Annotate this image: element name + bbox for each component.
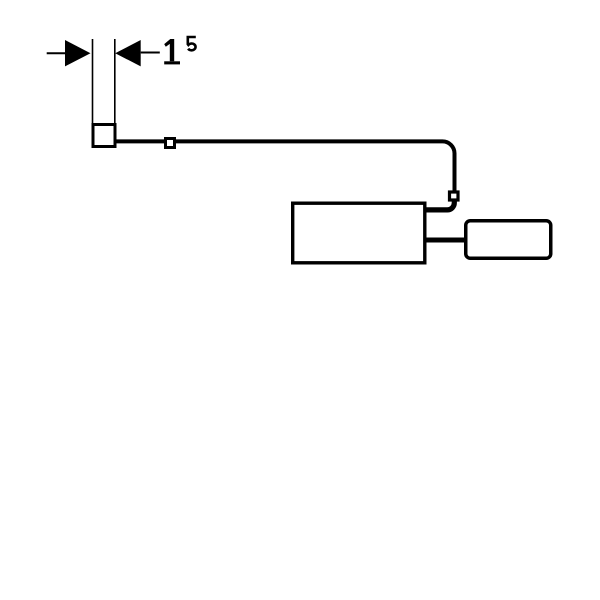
cable from wall box to bend: [117, 141, 455, 191]
dimension label digit 1: [164, 39, 174, 61]
dimension tail line left: [47, 52, 66, 54]
control unit box: [293, 203, 425, 263]
wall box: [93, 125, 115, 147]
dimension label digit 1 base bar: [164, 61, 180, 64]
cable connector near wall box: [166, 139, 175, 148]
extension line left: [92, 39, 94, 125]
dimension arrowhead left: [65, 40, 91, 66]
power supply box: [466, 221, 551, 259]
extension line right: [114, 39, 116, 125]
link line between control unit and power supply: [427, 238, 466, 243]
dimension arrowhead right: [115, 40, 141, 66]
plug connector above control unit: [450, 192, 459, 200]
dimension label superscript 5: [188, 37, 196, 50]
cable from plug into control unit: [426, 201, 454, 210]
dimension tail line right: [141, 52, 160, 54]
